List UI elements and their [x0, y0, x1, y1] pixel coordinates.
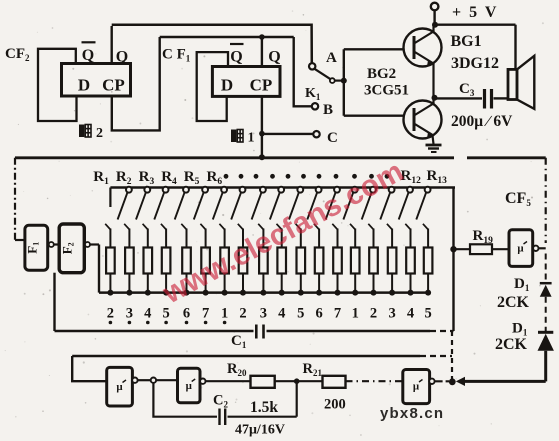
- svg-text:6: 6: [315, 306, 322, 322]
- svg-text:2: 2: [370, 306, 377, 322]
- svg-text:3DG12: 3DG12: [451, 55, 499, 72]
- svg-text:Q: Q: [116, 49, 128, 66]
- svg-text:200μ ∕ 6V: 200μ ∕ 6V: [451, 113, 513, 130]
- svg-text:A: A: [326, 50, 337, 66]
- svg-text:B: B: [323, 102, 333, 118]
- svg-text:3: 3: [260, 306, 267, 322]
- svg-text:Q: Q: [230, 49, 242, 66]
- svg-text:7: 7: [334, 306, 341, 322]
- svg-text:CP: CP: [250, 76, 273, 95]
- svg-text:2: 2: [239, 306, 246, 322]
- svg-text:4: 4: [278, 306, 285, 322]
- svg-text:2CK: 2CK: [495, 336, 528, 353]
- svg-text:μ: μ: [186, 380, 193, 392]
- svg-text:BG2: BG2: [367, 66, 396, 82]
- svg-text:1: 1: [352, 306, 359, 322]
- svg-text:2: 2: [107, 306, 114, 322]
- svg-text:4: 4: [407, 306, 414, 322]
- svg-text:μ: μ: [413, 381, 420, 393]
- svg-text:CP: CP: [102, 76, 125, 95]
- svg-text:2CK: 2CK: [497, 294, 530, 311]
- svg-text:D: D: [78, 76, 90, 95]
- svg-text:2: 2: [96, 126, 103, 141]
- svg-text:5: 5: [297, 306, 304, 322]
- svg-text:3: 3: [126, 306, 133, 322]
- svg-text:μ: μ: [116, 381, 123, 393]
- svg-text:4: 4: [144, 306, 151, 322]
- svg-text:Q: Q: [268, 49, 280, 66]
- svg-text:5: 5: [424, 306, 431, 322]
- svg-text:1.5k: 1.5k: [250, 399, 278, 416]
- svg-text:μ: μ: [517, 243, 524, 255]
- svg-text:C: C: [327, 130, 338, 146]
- svg-text:ybx8.cn: ybx8.cn: [380, 405, 444, 422]
- svg-text:6: 6: [183, 306, 190, 322]
- svg-text:Q: Q: [82, 47, 94, 64]
- svg-text:3CG51: 3CG51: [364, 83, 409, 99]
- svg-text:200: 200: [324, 397, 346, 413]
- svg-text:BG1: BG1: [451, 33, 482, 50]
- svg-text:47μ/16V: 47μ/16V: [235, 423, 285, 438]
- svg-text:D: D: [221, 76, 233, 95]
- svg-text:5: 5: [162, 306, 169, 322]
- svg-text:7: 7: [202, 306, 209, 322]
- svg-text:3: 3: [388, 306, 395, 322]
- svg-text:+ 5 V: + 5 V: [452, 4, 498, 21]
- svg-text:1: 1: [221, 306, 228, 322]
